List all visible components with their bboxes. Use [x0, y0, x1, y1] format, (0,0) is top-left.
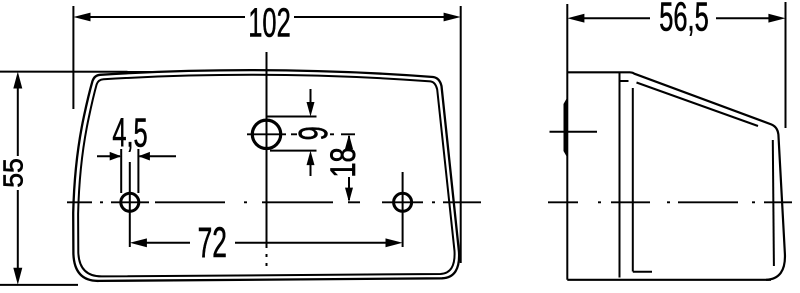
- arrow 56,5 left: [567, 14, 584, 23]
- svg-text:102: 102: [248, 0, 290, 46]
- top hole U1: [252, 120, 280, 148]
- right mounting hole: [394, 193, 412, 211]
- extension line 102 right: [460, 6, 462, 263]
- gasket (black): [564, 97, 568, 159]
- side housing vertical edge 2: [632, 88, 634, 272]
- dimension 4,5: [97, 155, 120, 157]
- top hole horizontal crosshair and dash-dot to right: [247, 133, 286, 135]
- arrow 4,5 right: [138, 152, 150, 161]
- left hole vertical centerline: [129, 162, 131, 247]
- arrow 55 top: [13, 72, 22, 89]
- side lens outer profile: [630, 72, 785, 279]
- top hole vertical centerline: [266, 52, 268, 248]
- svg-text:18: 18: [324, 147, 363, 177]
- arrow 9 top: [310, 89, 312, 103]
- svg-text:9: 9: [291, 126, 337, 140]
- extension line 56,5 right: [785, 2, 787, 128]
- main horizontal centerline: [67, 201, 481, 203]
- right hole vertical centerline: [402, 172, 404, 247]
- side view top edge: [567, 71, 630, 73]
- svg-text:72: 72: [198, 220, 227, 267]
- lamp body outer outline: [73, 70, 459, 281]
- arrow 102 right: [444, 13, 461, 22]
- left mounting hole: [121, 193, 139, 211]
- dimension 102 line: [87, 16, 245, 18]
- side lens inner right edge: [773, 140, 774, 266]
- dimension 72: [144, 242, 190, 244]
- arrow 55 bottom: [13, 268, 22, 285]
- stud cross line: [550, 131, 598, 133]
- arrow 56,5 right: [768, 14, 785, 23]
- arrow 4,5 left: [110, 152, 122, 161]
- dimension 18: [348, 136, 350, 147]
- side housing top step: [620, 80, 629, 82]
- lamp body inner outline: [78, 75, 454, 277]
- extension line 55 top: [0, 71, 160, 73]
- arrow 102 left: [73, 13, 90, 22]
- dimension 55 line: [17, 87, 19, 156]
- arrow 72 right: [386, 238, 403, 247]
- side view bottom edge: [567, 279, 771, 281]
- extension line 4,5 left: [120, 149, 122, 193]
- dimension 56,5: [582, 17, 650, 19]
- side housing vertical edge 1: [619, 72, 621, 277]
- side housing bottom step: [633, 271, 652, 273]
- arrow 9 bottom: [310, 164, 312, 176]
- svg-text:55: 55: [0, 158, 28, 188]
- side view back plate edge (also ext line 56,5 left): [566, 4, 568, 280]
- svg-text:56,5: 56,5: [659, 0, 708, 40]
- extension line 102 left: [72, 6, 74, 109]
- extension line 4,5 right: [137, 149, 139, 193]
- arrow 72 left: [130, 238, 147, 247]
- extension line 55 bottom: [0, 284, 78, 286]
- dimension 9 tangent lines: [267, 116, 317, 118]
- svg-text:4,5: 4,5: [112, 110, 147, 156]
- side lens inner slant: [637, 83, 759, 127]
- side view centerline: [548, 201, 792, 203]
